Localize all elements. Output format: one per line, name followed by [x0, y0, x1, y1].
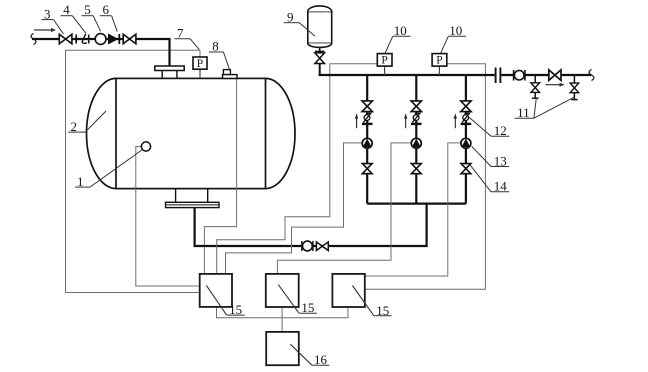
water meter 5 — [95, 34, 106, 45]
branch 2 flow arrow — [404, 113, 407, 128]
pipe break squiggle right — [589, 70, 594, 81]
gauge P10a stub — [384, 66, 386, 75]
svg-text:9: 9 — [287, 9, 294, 24]
control box 16 — [266, 332, 299, 365]
level sensor 1 — [141, 142, 150, 151]
pipe break squiggle left — [31, 34, 36, 45]
tank bottom flange — [166, 202, 220, 207]
svg-text:P: P — [436, 55, 442, 67]
tank top nozzle flange — [155, 66, 184, 78]
control box 16 diagonal — [290, 344, 312, 365]
label 12 — [469, 117, 509, 138]
valve 3 — [59, 34, 72, 44]
label 15b — [299, 300, 317, 315]
wire from pump 13a to control box 15a — [226, 143, 363, 274]
pressure gauge 10b — [432, 54, 447, 67]
pressure gauge 7 stub — [199, 69, 201, 78]
valve after 6 — [123, 34, 136, 44]
svg-text:P: P — [381, 55, 387, 67]
pump branch 3 pipe — [465, 76, 467, 204]
bus wire between control boxes — [217, 307, 348, 318]
label 11 — [515, 97, 575, 120]
air tank 9 — [308, 6, 332, 48]
svg-text:10: 10 — [449, 23, 462, 38]
svg-text:5: 5 — [84, 2, 91, 17]
branch 1 check valve 12 — [362, 113, 373, 125]
pump branch 1 pipe — [366, 76, 368, 204]
wire from pump 13c to control box 15c — [365, 143, 461, 276]
label 15a — [227, 302, 245, 317]
label 14 — [470, 165, 509, 193]
branch 1 lower valve 14 — [362, 164, 372, 174]
svg-text:8: 8 — [212, 39, 219, 54]
svg-text:7: 7 — [177, 25, 184, 40]
label 4 — [61, 2, 86, 33]
tank 2 left head — [87, 78, 117, 188]
label 7 — [174, 25, 199, 49]
control box 15b diagonal — [278, 285, 299, 314]
wire from control box 15b to control box 16 — [281, 307, 283, 332]
outlet valve — [549, 70, 561, 81]
tank bottom nozzle legs — [176, 189, 208, 203]
tank 2 shell — [116, 78, 266, 188]
label 8 — [209, 39, 230, 70]
branch 2 top valve — [411, 101, 421, 112]
wire from gauge P10b to control box 15c — [365, 64, 486, 289]
meter tick — [88, 35, 90, 44]
svg-text:P: P — [197, 58, 203, 70]
flexible coupling — [496, 68, 501, 84]
flow arrow inlet — [34, 28, 56, 32]
branch 1 flow arrow — [355, 113, 358, 128]
suction valve — [316, 242, 328, 251]
check valve 6 — [109, 34, 120, 44]
label 16 — [312, 352, 329, 367]
label 13 — [472, 146, 510, 168]
label 9 — [284, 9, 315, 36]
pump 13 branch 2 — [411, 138, 421, 148]
label 10a — [385, 23, 411, 53]
label 5 — [82, 2, 101, 31]
pressure gauge 10a — [377, 54, 392, 67]
svg-text:4: 4 — [63, 2, 70, 17]
pump 13 branch 1 — [362, 138, 372, 148]
safety device 8 — [223, 70, 238, 79]
valve below tank 9 — [315, 47, 325, 75]
branch 3 top valve — [461, 101, 471, 112]
wire from gauge P10a to control box 15a — [217, 64, 378, 274]
control box 15a — [200, 274, 232, 307]
pressure gauge 7 — [193, 57, 207, 70]
label 15c — [374, 303, 392, 318]
wire from device 8 to control box 15a — [204, 78, 236, 274]
tank 2 right head — [266, 78, 296, 188]
branch 3 check valve 12 — [461, 113, 472, 125]
branch 2 lower valve 14 — [411, 164, 421, 174]
branch 1 top valve — [362, 101, 372, 112]
label 3 — [42, 6, 64, 34]
inlet pipe — [32, 39, 170, 66]
check valve 4 — [76, 34, 87, 44]
label 2 — [68, 111, 106, 134]
wire from pump 13b to control box 15b — [277, 143, 411, 274]
suction pipe from tank to pump manifold — [195, 204, 427, 246]
gauge P10b stub — [438, 66, 440, 75]
pump 13 branch 3 — [461, 138, 471, 148]
branch 3 flow arrow — [454, 113, 457, 128]
label 6 — [100, 2, 117, 31]
pump suction manifold — [367, 203, 466, 205]
control box 15b — [266, 274, 299, 307]
branch 3 lower valve 14 — [461, 164, 471, 174]
branch 2 check valve 12 — [411, 113, 422, 125]
suction meter — [302, 241, 313, 251]
outlet header pipe — [319, 74, 592, 76]
drain valve 11a — [531, 76, 540, 98]
wire from sensor 1 to control box 15a — [136, 147, 200, 287]
label 10b — [441, 23, 466, 53]
pump branch 2 pipe — [415, 76, 417, 204]
control box 15c diagonal — [352, 286, 374, 316]
outlet meter — [514, 70, 525, 81]
svg-text:3: 3 — [44, 6, 51, 21]
control box 15c — [332, 274, 364, 307]
drain valve 11b — [570, 76, 579, 100]
control box 15a diagonal — [206, 285, 226, 315]
label 1 — [75, 150, 143, 190]
svg-text:6: 6 — [103, 2, 110, 17]
svg-text:10: 10 — [394, 23, 407, 38]
flow arrow outlet — [546, 83, 565, 87]
wire from gauge P7 to control box 15a — [66, 50, 201, 292]
